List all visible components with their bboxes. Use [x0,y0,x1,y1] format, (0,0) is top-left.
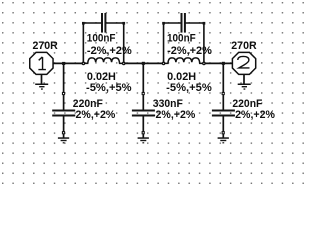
ground under C4 [138,137,149,143]
wire tank2 top rail right [186,22,204,24]
svg-text:-5%,+5%: -5%,+5% [86,82,132,94]
wire L1 right pin to L2 left pin [123,62,164,64]
pin square C4 bottom [142,131,145,134]
svg-text:-2%,+2%: -2%,+2% [87,45,132,57]
source V1 digit 1 [38,57,46,70]
wire tank2 left riser [163,23,165,62]
pin square C5 bottom [222,131,225,134]
capacitor C2 plates (100nF tank2) [181,13,186,33]
pin square C3 top [62,92,65,95]
tank1 top-right corner square [122,22,125,25]
junction node B [142,62,145,65]
wire C3 bottom lead to ground [63,116,65,138]
tank2 top-left corner square [162,22,165,25]
svg-text:-2%,+2%: -2%,+2% [167,45,212,57]
source V1 octagon [30,52,53,74]
wire node B down to C4 [142,63,144,109]
wire L2 right pin to V2 [203,62,233,64]
pin circle L2 left [162,62,164,64]
svg-text:-2%,+2%: -2%,+2% [232,109,276,121]
wire tank2 right riser [203,23,205,62]
capacitor C3 plates (220nF shunt left) [52,110,75,117]
pin circle L1 left [82,62,84,64]
ground under C5 [218,137,229,143]
wire tank1 right riser [123,23,125,62]
capacitor C1 plates (100nF tank1) [101,13,106,33]
svg-text:100nF: 100nF [87,33,116,45]
inductor L1 [85,58,123,64]
wire V2 ground lead [243,74,245,84]
svg-text:-2%,+2%: -2%,+2% [72,109,116,121]
tank2 top-right corner square [203,22,206,25]
wire V1 to L1 left pin [53,62,85,64]
svg-text:-2%,+2%: -2%,+2% [152,109,196,121]
pin square C5 top [222,92,225,95]
wire node A down to C3 [63,63,65,109]
wire node C down to C5 [222,63,224,109]
wire tank2 top rail left [164,22,181,24]
ground under C3 [58,137,69,143]
wire C4 bottom lead to ground [142,116,144,138]
pin square C3 bottom [62,131,65,134]
inductor L2 [165,58,203,64]
junction node A [62,62,65,65]
svg-text:-5%,+5%: -5%,+5% [166,82,212,94]
wire tank1 left riser [82,23,84,62]
source V2 octagon [232,52,255,74]
capacitor C5 plates (220nF shunt right) [212,110,235,117]
ground under V2 [238,84,251,90]
ground under V1 [35,84,48,90]
wire C5 bottom lead to ground [222,116,224,138]
wire tank1 top rail right [106,22,124,24]
pin circle L1 right [123,62,125,64]
source V2 digit 2 [238,56,250,68]
svg-text:100nF: 100nF [167,33,196,45]
pin circle L2 right [203,62,205,64]
tank1 top-left corner square [82,22,85,25]
capacitor C4 plates (330nF shunt middle) [132,110,155,117]
wire tank1 top rail left [83,22,101,24]
svg-text:270R: 270R [33,40,59,52]
pin square C4 top [142,92,145,95]
wire V1 ground lead [41,74,43,84]
svg-text:270R: 270R [231,40,257,52]
junction node C [222,62,225,65]
